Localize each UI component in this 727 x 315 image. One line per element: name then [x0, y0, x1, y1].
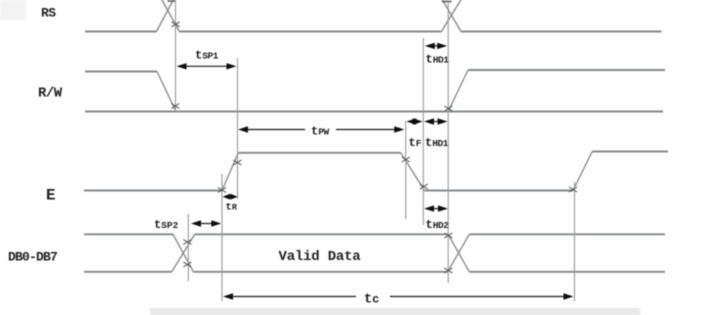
E rising edge 1 [222, 153, 238, 191]
svg-text:tF: tF [409, 136, 422, 150]
dimension extension line x=237.5 (E rise top) [237, 58, 239, 199]
RS crossover X2 falling stroke [439, 0, 461, 32]
tick at DB X2 upper [444, 233, 452, 238]
DB crossover X1 rising stroke [172, 234, 195, 271]
DB high rail segment 3 [469, 233, 665, 235]
svg-text:R/W: R/W [38, 86, 63, 102]
background smudge top-left corner [0, 0, 26, 20]
DB high rail segment 2 [195, 233, 449, 235]
tF arrow [406, 118, 422, 124]
DB crossover X2 falling stroke [448, 234, 469, 271]
svg-text:RS: RS [41, 6, 56, 21]
tHD1 top arrow [425, 43, 447, 49]
E low rail middle [425, 190, 574, 192]
tick at E rise top on ext line [233, 160, 241, 165]
dimension extension line x=188.3 (DB valid) [187, 214, 189, 281]
svg-text:E: E [46, 187, 55, 205]
E low rail left [84, 190, 222, 192]
RS crossover X1 falling stroke [159, 0, 180, 32]
tc arrow [223, 293, 574, 299]
tick at E rise2 bottom [569, 187, 577, 192]
tSP2 arrow [191, 220, 221, 226]
svg-text:tc: tc [364, 293, 379, 308]
RS low rail segment 2 [179, 31, 441, 33]
dimension extension line x=175.5 (R/W fall) [175, 0, 177, 112]
background smudge bottom band [150, 308, 640, 315]
dimension extension line x=222 (E rise bottom) [221, 174, 223, 301]
svg-text:tHD1: tHD1 [425, 136, 449, 150]
DB crossover X2 rising stroke [448, 234, 470, 271]
RS low rail segment 1 [85, 31, 156, 33]
DB crossover X1 falling stroke [173, 234, 193, 271]
svg-text:tSP2: tSP2 [154, 218, 179, 232]
R/W high rail left [85, 71, 157, 73]
svg-text:tR: tR [226, 202, 238, 214]
dimension extension line x=448.2 (RS/RW/DB change) [447, 0, 449, 283]
tHD1 bottom arrow [424, 118, 448, 124]
dimension extension line x=405.7 (E fall top) [405, 121, 407, 219]
RS crossover X2 rising stroke [441, 0, 464, 32]
DB low rail segment 3 [469, 271, 665, 273]
R/W falling edge [157, 72, 176, 112]
tick at DB X1 lower crossing [183, 262, 191, 267]
tick at RS X1 on ext line [172, 22, 180, 27]
E rising edge 2 [573, 152, 592, 191]
dimension extension line x=423.3 (E fall bottom) [422, 38, 424, 225]
DB low rail segment 1 [84, 271, 172, 273]
E falling edge [401, 153, 425, 191]
svg-text:DB0-DB7: DB0-DB7 [8, 250, 57, 265]
svg-text:tSP1: tSP1 [195, 49, 219, 63]
tick at R/W fall bottom [171, 104, 179, 109]
tHD2 arrow [424, 205, 448, 211]
tick at E fall top on ext line [402, 157, 410, 162]
svg-text:tPW: tPW [311, 125, 330, 139]
E high rail right [592, 151, 668, 153]
tick at R/W rise bottom [444, 106, 452, 111]
RS crossover X1 rising stroke [156, 0, 176, 32]
top dash mark over X1 [168, 0, 177, 2]
tick at DB X2 lower [444, 268, 452, 273]
svg-text:Valid Data: Valid Data [279, 249, 362, 265]
tSP1 arrow [177, 63, 237, 69]
tick at E rise bottom [218, 188, 226, 193]
R/W rising edge [448, 70, 468, 112]
tPW arrow [238, 126, 404, 132]
tick at DB X1 upper crossing [183, 240, 191, 245]
E high rail pulse [238, 152, 400, 154]
DB low rail segment 2 [193, 271, 447, 273]
tick at E fall bottom [420, 184, 428, 189]
svg-text:tHD2: tHD2 [426, 218, 450, 232]
tR arrow [223, 194, 239, 200]
svg-text:tHD1: tHD1 [426, 53, 450, 67]
RS low rail segment 3 [461, 31, 662, 33]
R/W high rail right [468, 69, 665, 71]
DB high rail segment 1 [84, 233, 173, 235]
top dash mark over X2 [442, 1, 452, 3]
R/W low rail [85, 111, 663, 113]
dimension extension line x=574.5 (E rise 2 / tc end) [574, 182, 576, 301]
